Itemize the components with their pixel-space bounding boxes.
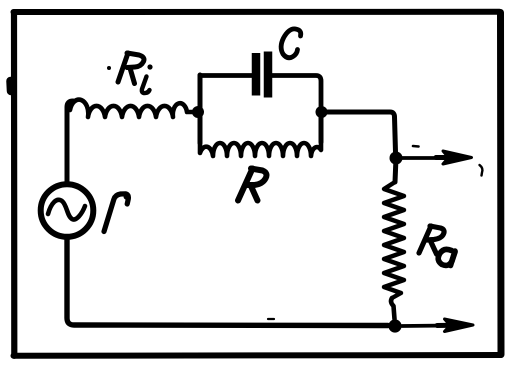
wire: node B to right corner, down to node C — [326, 112, 396, 152]
node D (lower output tap on bottom wire) — [388, 319, 401, 332]
label C — [281, 29, 301, 58]
resistor R — [200, 142, 321, 156]
capacitor C — [256, 52, 268, 98]
wire: RC block right vertical — [319, 112, 324, 142]
wire: capacitor right plate to corner and down — [272, 76, 322, 109]
node C (upper output tap) — [390, 152, 403, 165]
wire: node C to Ra — [395, 158, 396, 182]
arrow: upper output terminal — [402, 151, 472, 164]
wire: to capacitor left plate — [200, 73, 253, 78]
label of source G1 (Cyrillic Ge) — [104, 193, 130, 231]
wire: Ra bottom lead — [391, 298, 394, 319]
node A (junction of Ri and RC block) — [192, 106, 204, 118]
wire: source bottom down and along bottom to node D — [67, 237, 388, 326]
voltage source G1 (AC generator) — [41, 184, 94, 237]
wire: RC block left vertical — [198, 75, 203, 143]
label Ri — [118, 53, 153, 93]
arrow: lower output terminal — [402, 319, 473, 332]
label R — [238, 169, 267, 201]
wire from source top to Ri — [67, 101, 73, 184]
resistor Ra — [384, 182, 404, 298]
node B (right junction of RC block) — [316, 106, 328, 118]
label Ra — [419, 226, 455, 266]
resistor Ri — [70, 100, 196, 117]
